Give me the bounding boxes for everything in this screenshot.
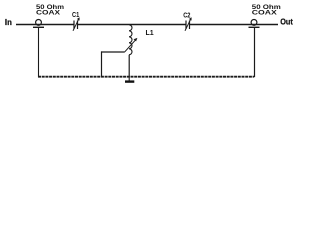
wire tap vertical to ground rail	[101, 51, 103, 77]
connector J2 coax output	[249, 20, 260, 28]
capacitor C2 (variable)	[185, 17, 192, 31]
svg-text:L1: L1	[146, 28, 155, 37]
connector J1 coax input	[33, 20, 44, 28]
wire top rail right segment	[190, 24, 279, 26]
wire J1 shield to ground rail	[38, 27, 40, 77]
wire ground rail bottom	[38, 76, 254, 78]
svg-text:C2: C2	[183, 11, 190, 20]
svg-text:C1: C1	[72, 10, 79, 19]
svg-text:In: In	[5, 18, 12, 27]
inductor L1 coil	[129, 25, 132, 55]
svg-text:COAX: COAX	[252, 10, 278, 17]
wire tap horizontal	[101, 51, 125, 53]
wire top rail left segment	[16, 24, 74, 26]
svg-text:Out: Out	[280, 18, 293, 27]
wire L1 bottom lead	[128, 55, 130, 77]
capacitor C1 (variable)	[73, 17, 80, 31]
ground	[125, 77, 134, 82]
wire top rail middle segment	[78, 24, 187, 26]
wire J2 shield to ground rail	[254, 27, 256, 77]
inductor L1 tap arrow	[125, 38, 138, 52]
svg-text:COAX: COAX	[36, 10, 61, 17]
